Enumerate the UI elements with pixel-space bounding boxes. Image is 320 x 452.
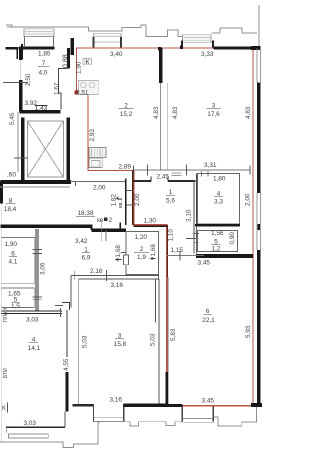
washbasin icon: [89, 148, 106, 158]
svg-text:1,9: 1,9: [137, 254, 146, 261]
svg-text:15,8: 15,8: [114, 341, 127, 348]
svg-text:2,00: 2,00: [93, 185, 106, 192]
thin guide at 3,42: [100, 222, 102, 242]
room 4 kv2 underline: [29, 342, 38, 344]
kv2 room3 bottom wall west part: [73, 404, 94, 406]
room 6 4,1 box: [2, 238, 35, 284]
hall thin line under stair: [70, 181, 126, 183]
elevator shaft diagonal X: [27, 121, 63, 177]
room 7 closet wall thin: [59, 68, 67, 109]
divider wall rooms 2-3 thick: [159, 48, 163, 83]
wall rooms 4-3 kv2 lower thick: [65, 372, 68, 412]
vent duct marks above door: [172, 173, 182, 176]
door swing line corridor: [105, 231, 107, 242]
svg-text:2,93: 2,93: [89, 129, 96, 142]
room 6 22,1 top wall: [196, 254, 253, 258]
room 4 door ticks top: [202, 171, 209, 177]
dim tick 1,68: [121, 252, 127, 254]
svg-text:3,16: 3,16: [111, 282, 124, 289]
svg-text:2: 2: [124, 103, 128, 110]
room 4 bottom thick wall: [195, 224, 240, 227]
west outer thin line: [0, 204, 2, 442]
right outer wall thick upper: [257, 83, 261, 194]
kitchen K box: [83, 58, 92, 64]
right outer wall thick lower: [257, 250, 261, 405]
svg-text:4,55: 4,55: [63, 358, 70, 371]
room 7 right thick wall: [67, 48, 70, 68]
kv2 bottom window sill: [94, 418, 124, 422]
room 2 kv2 underline: [134, 251, 149, 253]
left guide line room5: [195, 226, 197, 250]
room 4 3,3 box: [198, 174, 240, 224]
wall left of corridor 1 double lines: [36, 229, 38, 311]
svg-text:17,6: 17,6: [207, 111, 220, 118]
window W1 jambs: [25, 37, 54, 47]
svg-text:3,3: 3,3: [214, 199, 223, 206]
room 1 door jambs: [151, 177, 168, 182]
dimension ticks middle: [134, 165, 250, 176]
room 6 kv2 underline: [9, 256, 17, 258]
right outer wall mullion: [257, 224, 261, 230]
svg-text:4,0: 4,0: [39, 70, 48, 77]
svg-text:2,00: 2,00: [245, 193, 252, 206]
room 8 underline: [6, 203, 16, 205]
room 6 door jambs: [186, 238, 197, 253]
room 3 kv2 underline: [115, 338, 124, 340]
kv1 bottom wall left of window: [168, 404, 183, 407]
room 3 underline: [207, 108, 221, 110]
svg-text:2,16: 2,16: [90, 268, 103, 275]
svg-text:3,16: 3,16: [110, 397, 123, 404]
svg-text:3,42: 3,42: [75, 238, 88, 245]
svg-text:1,82: 1,82: [111, 194, 118, 207]
left wall door gap line: [20, 60, 22, 80]
svg-text:1,15: 1,15: [171, 247, 184, 254]
line near K: [7, 403, 9, 413]
kv2 room3 bottom wall thick: [124, 404, 168, 407]
dimension tick 2,16-3,16: [74, 270, 158, 281]
svg-text:1,68: 1,68: [150, 244, 157, 257]
svg-text:4,83: 4,83: [172, 106, 179, 119]
svg-text:К: К: [2, 405, 6, 412]
room 5 underline: [212, 244, 221, 246]
apartment divider dark overlay upper: [167, 225, 169, 277]
svg-text:3,03: 3,03: [24, 420, 37, 427]
kv1 bottom window jambs: [182, 407, 213, 422]
room 5 1,5 box: [2, 288, 35, 308]
room 5 kv2 underline: [12, 302, 20, 304]
svg-text:1,67: 1,67: [54, 82, 61, 95]
left outer wall upper segment: [19, 46, 22, 60]
kv2 bottom window jambs: [94, 404, 124, 422]
tick right end: [60, 308, 62, 317]
svg-text:,60: ,60: [7, 172, 16, 179]
svg-text:18,4: 18,4: [4, 206, 17, 213]
west outer wall segment: [0, 181, 3, 204]
svg-text:5,03: 5,03: [82, 335, 89, 348]
window W2 jambs: [94, 37, 122, 48]
washbasin inner lines: [92, 149, 103, 157]
svg-text:1,80: 1,80: [213, 176, 226, 183]
wall thin continuation: [64, 412, 66, 428]
balcony box: [8, 434, 48, 438]
svg-text:2,89: 2,89: [119, 164, 132, 171]
top right corner block: [251, 46, 261, 50]
room 5 1,2 box: [198, 231, 238, 252]
bottom facade zigzag middle: [100, 422, 182, 426]
svg-text:2,45: 2,45: [157, 174, 170, 181]
svg-text:3,45: 3,45: [202, 398, 215, 405]
room 6 kv1 underline: [204, 313, 212, 315]
svg-text:0,88: 0,88: [63, 54, 70, 68]
room 7 underline: [38, 65, 49, 67]
room 4 underline: [214, 196, 223, 198]
wall under rooms 5-6 double lines: [2, 311, 63, 314]
top wall divider stub: [158, 47, 161, 51]
top-left corner vertical: [16, 47, 18, 59]
outer facade top line left: [6, 25, 182, 36]
room 1 top wall with door gap: [134, 180, 196, 182]
window W1 hatch: [25, 31, 53, 34]
arrow right room2: [151, 257, 156, 260]
svg-text:1,90: 1,90: [76, 61, 83, 74]
window W1 1,85 sill: [24, 29, 54, 37]
svg-text:1,20: 1,20: [135, 234, 148, 241]
svg-text:3,31: 3,31: [204, 162, 217, 169]
dimension tick ,60: [14, 157, 28, 159]
hall 18,38 underline: [76, 215, 95, 217]
corridor wall step: [92, 229, 127, 232]
svg-text:3,33: 3,33: [201, 51, 214, 58]
window W3 hatch: [184, 38, 211, 41]
divider extension line a: [160, 83, 162, 170]
window W3 3,33 sill: [183, 35, 212, 43]
svg-text:3,03: 3,03: [26, 317, 39, 324]
svg-text:5,6: 5,6: [166, 198, 175, 205]
room 4 14,1 bottom wall: [6, 426, 65, 428]
tick 1,15: [179, 251, 181, 261]
bottom facade right: [213, 406, 256, 426]
tick on wall a: [33, 249, 43, 299]
kitchen K box hatch: [84, 59, 85, 64]
svg-text:5,83: 5,83: [170, 328, 177, 341]
bottom outer line left: [0, 422, 100, 447]
svg-text:1,85: 1,85: [38, 51, 51, 58]
vent boxes east of stair: [125, 178, 127, 225]
kv1 bottom window sill: [182, 419, 213, 423]
svg-text:4,83: 4,83: [245, 106, 252, 119]
red boundary line kv.1 outline: [77, 48, 254, 406]
stair east wall: [67, 118, 70, 182]
svg-text:7: 7: [42, 60, 46, 67]
room 2 door leaf: [124, 255, 129, 265]
top wall segment right of W3: [214, 47, 253, 50]
corridor wall jamb up: [119, 223, 121, 230]
svg-text:2,50: 2,50: [25, 73, 32, 86]
room 7 bottom wall: [20, 110, 61, 113]
dimension line 3,45 top: [167, 255, 204, 257]
top wall door jamb stub 0,88: [71, 38, 74, 55]
top wall black segment far left: [6, 47, 19, 49]
entrance arrow left: [116, 258, 122, 261]
shaft outer west line: [17, 112, 19, 172]
vent box shelves: [126, 191, 134, 206]
stair block bottom wall: [1, 180, 71, 184]
svg-text:15,2: 15,2: [120, 111, 133, 118]
svg-text:1,68: 1,68: [115, 245, 122, 258]
WC inner box: [91, 161, 100, 167]
svg-text:5,45: 5,45: [9, 112, 16, 125]
line above 1,43: [35, 104, 48, 106]
middle dimension line: [133, 169, 251, 171]
svg-text:3: 3: [212, 103, 216, 110]
svg-text:БТИ: БТИ: [3, 368, 9, 378]
window W2 3,40 sill: [93, 34, 121, 37]
outer facade top right bump: [212, 28, 258, 33]
svg-text:4,83: 4,83: [153, 106, 160, 119]
svg-text:кв: кв: [97, 217, 104, 224]
svg-text:14,1: 14,1: [28, 345, 41, 352]
svg-text:3,45: 3,45: [198, 260, 211, 267]
top wall black segment left: [21, 46, 55, 49]
elevator shaft west wall: [21, 117, 24, 181]
svg-text:3,06: 3,06: [40, 262, 47, 275]
svg-text:ПЛАН: ПЛАН: [3, 308, 9, 322]
right outer wall window lines middle: [257, 193, 260, 250]
kv.1 arrow: [116, 197, 121, 200]
svg-text:6,9: 6,9: [82, 255, 91, 262]
svg-text:22,1: 22,1: [202, 317, 215, 324]
svg-text:2,00: 2,00: [134, 193, 141, 206]
wall corner kv2 rooms: [62, 303, 70, 311]
tick bottom left: [5, 426, 7, 433]
room 1 left wall dark overlay: [132, 171, 134, 226]
corridor kv.2 lower walls double: [71, 275, 159, 279]
svg-text:1,43: 1,43: [35, 105, 48, 112]
svg-text:2: 2: [109, 217, 113, 224]
room 1 underline: [166, 194, 175, 196]
apartment divider wall black: [167, 277, 169, 404]
svg-text:К: К: [86, 59, 90, 66]
stove icon box: [79, 81, 99, 95]
top wall black corner W3 left: [180, 46, 183, 49]
svg-text:0,51: 0,51: [76, 89, 89, 96]
corridor 1 underline: [82, 252, 90, 254]
svg-text:1,5: 1,5: [11, 303, 20, 310]
svg-text:5,03: 5,03: [150, 333, 157, 346]
svg-text:3,40: 3,40: [110, 51, 123, 58]
svg-text:5,93: 5,93: [245, 325, 252, 338]
window W3 jambs: [182, 41, 213, 48]
left outer wall lower segment: [19, 80, 22, 112]
wall rooms 1-4 line b: [196, 174, 198, 251]
left jamb stub up: [21, 44, 23, 59]
tick on wall: [55, 305, 63, 307]
WC icon: [89, 158, 102, 168]
svg-text:1,2: 1,2: [212, 246, 221, 253]
dimension tick 2,50: [3, 82, 28, 84]
svg-text:3,10: 3,10: [186, 209, 193, 222]
divider extension line b: [167, 83, 169, 170]
red stub 0,51: [74, 91, 78, 95]
svg-text:1,30: 1,30: [144, 218, 157, 225]
outer facade right top stub: [258, 5, 260, 47]
kv.2 corridor bottom wall: [1, 224, 93, 227]
window W2 sill line low: [93, 41, 121, 43]
room 2 underline: [119, 108, 134, 110]
right outer wall window upper lines: [257, 49, 260, 83]
room 3 kv2 left wall: [78, 279, 80, 404]
corridor wall step vertical a: [91, 226, 93, 230]
wall rooms 1-4 line a: [193, 181, 195, 250]
apartment divider wall thick lower: [166, 372, 169, 405]
svg-text:кв.1: кв.1: [118, 198, 124, 208]
hall tick: [74, 182, 76, 187]
svg-text:4,1: 4,1: [9, 259, 18, 266]
left ticks room5: [194, 234, 200, 243]
svg-text:1,56: 1,56: [211, 230, 224, 237]
wall rooms 4-3 kv2 upper thin: [66, 310, 68, 357]
svg-text:1,90: 1,90: [5, 241, 18, 248]
outer line under stair block: [0, 186, 70, 188]
svg-text:0,90: 0,90: [229, 232, 236, 245]
room 3 kv2 right wall double: [155, 279, 159, 404]
corridor vertical west: [70, 275, 72, 307]
stove burners: [81, 82, 87, 88]
svg-text:1,10: 1,10: [168, 229, 175, 242]
room 2 1,9 box: [126, 232, 158, 275]
elevator shaft inner box: [27, 121, 63, 177]
room 1 bottom wall black: [134, 225, 167, 227]
bottom right corner block: [251, 403, 262, 407]
